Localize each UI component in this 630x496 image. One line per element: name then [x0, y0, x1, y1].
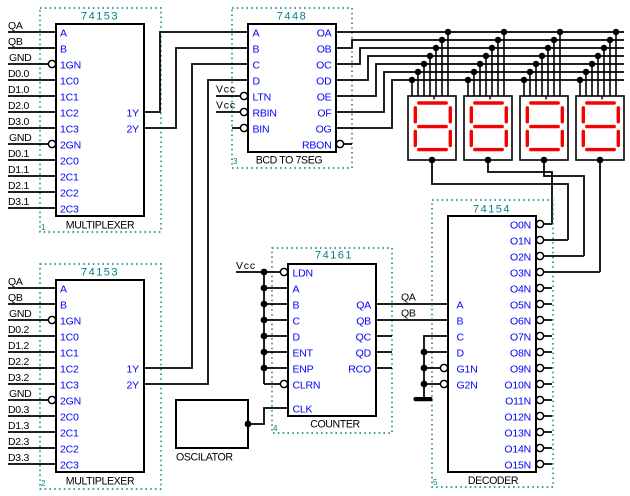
- svg-text:CLK: CLK: [293, 404, 313, 416]
- wire net QA U4.QA to U5.A: [376, 303, 448, 305]
- svg-text:1Y: 1Y: [127, 108, 140, 120]
- wire tie to U4 ENP: [264, 367, 288, 369]
- wire DS3 segment pin 3: [547, 48, 549, 96]
- junction dot DS1 common: [429, 157, 436, 164]
- svg-text:O2N: O2N: [510, 252, 531, 264]
- seven segment display DS1 body: [408, 96, 456, 160]
- svg-text:74154: 74154: [473, 204, 511, 216]
- junction dot DS2 pin 1: [501, 29, 508, 36]
- junction dot DS4 pin 6: [583, 69, 590, 76]
- svg-text:1C3: 1C3: [60, 124, 79, 136]
- counter U4 74161 body: [288, 264, 376, 416]
- junction dot U5 G2N tie: [421, 381, 428, 388]
- junction dot DS2 pin 3: [489, 45, 496, 52]
- svg-text:D: D: [253, 76, 261, 88]
- svg-text:4: 4: [273, 424, 278, 433]
- junction dot DS2 pin 7: [465, 77, 472, 84]
- wire DS1 segment pin 5: [423, 64, 425, 96]
- svg-text:MULTIPLEXER: MULTIPLEXER: [66, 220, 135, 232]
- svg-text:D3.2: D3.2: [8, 372, 29, 384]
- svg-text:1C3: 1C3: [60, 380, 79, 392]
- junction dot DS2 pin 5: [477, 61, 484, 68]
- svg-text:RBIN: RBIN: [253, 108, 277, 120]
- wire stub O9N: [544, 367, 553, 369]
- wire DS3 segment pin 5: [535, 64, 537, 96]
- inverter bubble U4 pin CLRN: [280, 380, 287, 387]
- wire stub O0N: [544, 223, 553, 225]
- junction dot DS1 pin 7: [409, 77, 416, 84]
- DS1 seg d bottom: [419, 148, 446, 151]
- inverter bubble U2 pin 1GN: [48, 316, 55, 323]
- inverter bubble U1 pin 2GN: [48, 140, 55, 147]
- inverter bubble U5 pin O2N: [536, 252, 543, 259]
- svg-text:Vcc: Vcc: [236, 260, 256, 272]
- wire U5 C tie: [424, 336, 448, 398]
- wire DS1 segment pin 4: [429, 56, 431, 96]
- svg-text:G1N: G1N: [457, 364, 478, 376]
- junction dot DS1 pin 1: [445, 29, 452, 36]
- svg-text:COUNTER: COUNTER: [310, 419, 360, 431]
- wire DS3 segment pin 4: [541, 56, 543, 96]
- svg-text:GND: GND: [9, 308, 32, 320]
- DS3 seg f top-left: [526, 108, 529, 122]
- junction dot DS3 pin 3: [545, 45, 552, 52]
- inverter bubble U5 pin O5N: [536, 300, 543, 307]
- svg-text:BCD TO 7SEG: BCD TO 7SEG: [256, 155, 323, 167]
- wire DS2 segment pin 1: [503, 32, 505, 96]
- dotted outline box U2: [40, 264, 161, 489]
- DS1 seg b top-right: [449, 108, 452, 122]
- svg-text:C: C: [253, 60, 261, 72]
- junction dot DS3 pin 1: [557, 29, 564, 36]
- wire QB to U1: [8, 47, 56, 49]
- svg-text:B: B: [253, 44, 260, 56]
- svg-text:CLRN: CLRN: [293, 380, 321, 392]
- inverter bubble U5 pin O3N: [536, 268, 543, 275]
- svg-text:QD: QD: [356, 348, 372, 360]
- DS2 seg f top-left: [470, 108, 473, 122]
- svg-text:1Y: 1Y: [127, 364, 140, 376]
- DS3 seg e bot-left: [526, 131, 529, 145]
- DS1 seg c bot-right: [449, 131, 452, 145]
- wire stub U3 BIN: [232, 127, 241, 129]
- wire GND to U2: [8, 399, 48, 401]
- wire stub O6N: [544, 319, 553, 321]
- wire tie to U4 ENT: [264, 351, 288, 353]
- wire D3.0 to U1: [8, 127, 56, 129]
- wire stub O15N: [544, 463, 553, 465]
- svg-text:O8N: O8N: [510, 348, 531, 360]
- svg-text:QB: QB: [8, 292, 23, 304]
- wire bus OG: [336, 80, 624, 128]
- wire stub O4N: [544, 287, 553, 289]
- wire DS2 segment pin 3: [491, 48, 493, 96]
- svg-text:QA: QA: [356, 300, 371, 312]
- svg-text:2C0: 2C0: [60, 156, 79, 168]
- inverter bubble U5 pin O8N: [536, 348, 543, 355]
- junction dot DS1 pin 2: [439, 37, 446, 44]
- inverter bubble U5 pin O15N: [536, 460, 543, 467]
- DS2 seg g middle: [475, 125, 502, 128]
- junction dot DS3 common: [541, 157, 548, 164]
- wire tie to U4 B: [264, 303, 288, 305]
- svg-text:QB: QB: [356, 316, 371, 328]
- junction dot Vcc tie 5: [261, 333, 268, 340]
- wire stub O10N: [544, 383, 553, 385]
- DS3 seg a top: [531, 101, 558, 104]
- junction dot DS1 pin 3: [433, 45, 440, 52]
- wire DS1 segment pin 1: [447, 32, 449, 96]
- svg-text:OA: OA: [317, 28, 332, 40]
- multiplexer U1 74153 body: [56, 24, 144, 216]
- svg-text:A: A: [293, 284, 300, 296]
- wire bus OA: [336, 31, 624, 33]
- wire stub O3N: [544, 271, 601, 273]
- junction dot Vcc tie 3: [261, 301, 268, 308]
- svg-text:5: 5: [433, 478, 438, 487]
- svg-text:ENT: ENT: [293, 348, 314, 360]
- seven segment display DS3 body: [520, 96, 568, 160]
- junction dot Vcc tie 7: [261, 365, 268, 372]
- DS3 seg c bot-right: [561, 131, 564, 145]
- wire tie to U4 A: [264, 287, 288, 289]
- wire DS4 segment pin 3: [603, 48, 605, 96]
- junction dot DS4 pin 5: [589, 61, 596, 68]
- svg-text:O9N: O9N: [510, 364, 531, 376]
- wire stub O11N: [544, 399, 553, 401]
- wire DS1 common to O1N: [432, 160, 568, 240]
- svg-text:B: B: [457, 316, 464, 328]
- svg-text:2C3: 2C3: [60, 204, 79, 216]
- svg-text:1C2: 1C2: [60, 364, 79, 376]
- svg-text:2GN: 2GN: [60, 396, 81, 408]
- DS1 seg g middle: [419, 125, 446, 128]
- svg-text:D2.0: D2.0: [8, 100, 29, 112]
- wire D2.3 to U2: [8, 447, 56, 449]
- junction dot DS3 pin 4: [539, 53, 546, 60]
- svg-text:OF: OF: [317, 108, 331, 120]
- svg-text:GND: GND: [9, 52, 32, 64]
- wire DS1 segment pin 6: [417, 72, 419, 96]
- wire DS1 segment pin 7: [411, 80, 413, 96]
- junction dot Vcc tie 6: [261, 349, 268, 356]
- wire QA to U2: [8, 287, 56, 289]
- svg-text:D3.1: D3.1: [8, 196, 29, 208]
- svg-text:GND: GND: [9, 132, 32, 144]
- wire DS3 segment pin 1: [559, 32, 561, 96]
- wire QA to U1: [8, 31, 56, 33]
- DS4 seg c bot-right: [617, 131, 620, 145]
- wire U1 1Y to U3 A: [144, 32, 248, 112]
- svg-text:A: A: [60, 284, 67, 296]
- inverter bubble U3 pin BIN: [240, 124, 247, 131]
- DS4 seg d bottom: [587, 148, 614, 151]
- inverter bubble U5 pin O9N: [536, 364, 543, 371]
- DS3 seg g middle: [531, 125, 558, 128]
- wire DS4 segment pin 6: [585, 72, 587, 96]
- inverter bubble U5 pin O1N: [536, 236, 543, 243]
- wire DS2 segment pin 5: [479, 64, 481, 96]
- inverter bubble U4 pin LDN: [280, 268, 287, 275]
- svg-text:O6N: O6N: [510, 316, 531, 328]
- BCD to 7-segment decoder U3 7448 body: [248, 24, 336, 152]
- svg-text:2GN: 2GN: [60, 140, 81, 152]
- wire DS2 common to O0N: [488, 160, 552, 224]
- wire stub O1N: [544, 239, 569, 241]
- svg-text:74153: 74153: [81, 11, 119, 23]
- junction dot DS4 pin 1: [613, 29, 620, 36]
- inverter bubble U1 pin 1GN: [48, 60, 55, 67]
- seven segment display DS4 body: [576, 96, 624, 160]
- svg-text:D: D: [457, 348, 465, 360]
- wire U5 G2N tie: [424, 383, 441, 385]
- wire D3.1 to U1: [8, 207, 56, 209]
- DS3 common pin stub: [545, 96, 547, 100]
- svg-text:D: D: [293, 332, 301, 344]
- svg-text:1: 1: [41, 223, 46, 232]
- wire DS1 segment pin 3: [435, 48, 437, 96]
- wire GND to U1: [8, 63, 48, 65]
- dotted outline box U3: [232, 8, 352, 168]
- svg-text:QA: QA: [401, 292, 416, 304]
- svg-text:O5N: O5N: [510, 300, 531, 312]
- DS4 common pin stub: [601, 96, 603, 100]
- ground symbol: [414, 397, 433, 401]
- DS4 seg a top: [587, 101, 614, 104]
- wire Vcc to U3 LTN: [216, 95, 241, 97]
- multiplexer U2 74153 body: [56, 280, 144, 472]
- svg-text:OE: OE: [317, 92, 332, 104]
- inverter bubble U5 pin O0N: [536, 220, 543, 227]
- wire D1.1 to U1: [8, 175, 56, 177]
- svg-text:B: B: [293, 300, 300, 312]
- wire bus OB: [336, 40, 624, 48]
- wire tie to U4 C: [264, 319, 288, 321]
- svg-text:LDN: LDN: [293, 268, 313, 280]
- wire GND to U1: [8, 143, 48, 145]
- junction dot Vcc tie 1: [261, 269, 268, 276]
- wire stub U4 RCO: [376, 367, 392, 369]
- svg-text:D3.3: D3.3: [8, 452, 29, 464]
- svg-text:1C1: 1C1: [60, 348, 79, 360]
- svg-text:D3.0: D3.0: [8, 116, 29, 128]
- svg-text:OD: OD: [316, 76, 332, 88]
- svg-text:A: A: [457, 300, 464, 312]
- junction dot DS4 pin 7: [577, 77, 584, 84]
- wire stub U3 RBON: [344, 143, 353, 145]
- wire DS2 segment pin 2: [497, 40, 499, 96]
- svg-text:2C2: 2C2: [60, 444, 79, 456]
- wire Vcc tie bus vertical: [263, 272, 265, 384]
- inverter bubble U2 pin 2GN: [48, 396, 55, 403]
- svg-text:QB: QB: [8, 36, 23, 48]
- inverter bubble U5 pin G2N: [440, 380, 447, 387]
- svg-text:D1.1: D1.1: [8, 164, 29, 176]
- wire D1.0 to U1: [8, 95, 56, 97]
- svg-text:1GN: 1GN: [60, 60, 81, 72]
- wire D0.0 to U1: [8, 79, 56, 81]
- inverter bubble U5 pin O13N: [536, 428, 543, 435]
- wire stub O8N: [544, 351, 553, 353]
- wire Vcc to U4 LDN: [236, 271, 281, 273]
- svg-text:74153: 74153: [81, 267, 119, 279]
- svg-text:D2.1: D2.1: [8, 180, 29, 192]
- wire DS3 common to O2N: [544, 160, 584, 256]
- wire stub O14N: [544, 447, 553, 449]
- svg-text:D1.3: D1.3: [8, 420, 29, 432]
- svg-text:2C1: 2C1: [60, 428, 79, 440]
- svg-text:3: 3: [233, 157, 238, 166]
- DS1 seg a top: [419, 101, 446, 104]
- inverter bubble U5 pin G1N: [440, 364, 447, 371]
- svg-text:O0N: O0N: [510, 220, 531, 232]
- svg-text:1C1: 1C1: [60, 92, 79, 104]
- wire DS2 segment pin 6: [473, 72, 475, 96]
- wire D0.2 to U2: [8, 335, 56, 337]
- svg-text:ENP: ENP: [293, 364, 314, 376]
- svg-text:QA: QA: [8, 20, 23, 32]
- inverter bubble U3 pin RBON: [336, 140, 343, 147]
- DS4 seg g middle: [587, 125, 614, 128]
- svg-text:OG: OG: [316, 124, 332, 136]
- wire bus OD: [336, 56, 624, 80]
- svg-text:A: A: [253, 28, 260, 40]
- svg-text:Vcc: Vcc: [216, 100, 236, 112]
- svg-text:QA: QA: [8, 276, 23, 288]
- dotted outline box U4: [272, 248, 392, 433]
- DS2 seg b top-right: [505, 108, 508, 122]
- junction dot Vcc tie 4: [261, 317, 268, 324]
- svg-text:2C2: 2C2: [60, 188, 79, 200]
- wire stub U4 QC: [376, 335, 392, 337]
- svg-text:O11N: O11N: [505, 396, 531, 408]
- DS2 seg e bot-left: [470, 131, 473, 145]
- dotted outline box U1: [40, 8, 161, 232]
- inverter bubble U5 pin O7N: [536, 332, 543, 339]
- wire U2 2Y to U3 D: [144, 80, 248, 384]
- inverter bubble U3 pin LTN: [240, 92, 247, 99]
- wire stub O5N: [544, 303, 553, 305]
- decoder U5 74154 body: [448, 216, 536, 472]
- inverter bubble U5 pin O6N: [536, 316, 543, 323]
- wire stub O13N: [544, 431, 553, 433]
- DS4 seg e bot-left: [582, 131, 585, 145]
- wire tie to U4 CLRN: [264, 383, 281, 385]
- junction dot DS1 pin 6: [415, 69, 422, 76]
- seven segment display DS2 body: [464, 96, 512, 160]
- svg-text:2C3: 2C3: [60, 460, 79, 472]
- svg-text:A: A: [60, 28, 67, 40]
- wire D3.3 to U2: [8, 463, 56, 465]
- junction dot DS4 common: [597, 157, 604, 164]
- wire DS4 segment pin 2: [609, 40, 611, 96]
- svg-text:QB: QB: [401, 308, 416, 320]
- svg-text:Vcc: Vcc: [216, 84, 236, 96]
- inverter bubble U5 pin O4N: [536, 284, 543, 291]
- wire DS4 segment pin 4: [597, 56, 599, 96]
- svg-text:O4N: O4N: [510, 284, 531, 296]
- wire OSC1 output to U4 CLK: [248, 408, 288, 424]
- svg-text:B: B: [60, 300, 67, 312]
- wire bus OC: [336, 48, 624, 64]
- DS3 seg d bottom: [531, 148, 558, 151]
- wire D2.2 to U2: [8, 367, 56, 369]
- junction dot DS4 pin 3: [601, 45, 608, 52]
- DS4 seg b top-right: [617, 108, 620, 122]
- svg-text:O10N: O10N: [504, 380, 531, 392]
- svg-text:1C0: 1C0: [60, 332, 79, 344]
- wire DS3 segment pin 2: [553, 40, 555, 96]
- oscillator OSC1 body: [176, 400, 248, 448]
- wire D0.1 to U1: [8, 159, 56, 161]
- junction dot DS3 pin 6: [527, 69, 534, 76]
- junction dot U5 D tie: [421, 349, 428, 356]
- svg-text:O13N: O13N: [504, 428, 531, 440]
- svg-text:RCO: RCO: [348, 364, 371, 376]
- junction dot Vcc tie 2: [261, 285, 268, 292]
- wire U5 D tie: [424, 351, 448, 353]
- dotted outline box U5: [432, 200, 553, 487]
- svg-text:1C2: 1C2: [60, 108, 79, 120]
- junction dot U5 G1N tie: [421, 365, 428, 372]
- svg-text:1GN: 1GN: [60, 316, 81, 328]
- svg-text:OSCILATOR: OSCILATOR: [176, 452, 233, 464]
- DS2 seg c bot-right: [505, 131, 508, 145]
- svg-text:1C0: 1C0: [60, 76, 79, 88]
- wire D3.2 to U2: [8, 383, 56, 385]
- wire DS3 segment pin 7: [523, 80, 525, 96]
- inverter bubble U5 pin O12N: [536, 412, 543, 419]
- wire GND to U2: [8, 319, 48, 321]
- junction dot DS2 pin 4: [483, 53, 490, 60]
- wire D2.1 to U1: [8, 191, 56, 193]
- junction dot DS2 common: [485, 157, 492, 164]
- svg-text:D1.2: D1.2: [8, 340, 29, 352]
- junction dot DS3 pin 5: [533, 61, 540, 68]
- inverter bubble U5 pin O14N: [536, 444, 543, 451]
- svg-text:G2N: G2N: [457, 380, 478, 392]
- inverter bubble U3 pin RBIN: [240, 108, 247, 115]
- junction dot DS2 pin 6: [471, 69, 478, 76]
- wire tie to U4 D: [264, 335, 288, 337]
- svg-text:2C1: 2C1: [60, 172, 79, 184]
- wire D1.2 to U2: [8, 351, 56, 353]
- svg-text:DECODER: DECODER: [468, 475, 519, 487]
- junction dot DS2 pin 2: [495, 37, 502, 44]
- svg-text:RBON: RBON: [302, 140, 332, 152]
- wire stub O7N: [544, 335, 553, 337]
- svg-text:O14N: O14N: [504, 444, 531, 456]
- inverter bubble U5 pin O10N: [536, 380, 543, 387]
- junction dot DS3 pin 2: [551, 37, 558, 44]
- wire U2 1Y to U3 C: [144, 64, 248, 368]
- svg-text:D2.2: D2.2: [8, 356, 29, 368]
- wire stub O2N: [544, 255, 585, 257]
- DS4 seg f top-left: [582, 108, 585, 122]
- wire DS4 segment pin 5: [591, 64, 593, 96]
- svg-text:74161: 74161: [315, 250, 353, 262]
- wire Vcc to U3 RBIN: [216, 111, 241, 113]
- wire net QB U4.QB to U5.B: [376, 319, 448, 321]
- wire bus OE: [336, 64, 624, 96]
- svg-text:D2.3: D2.3: [8, 436, 29, 448]
- junction dot OSC1 output: [245, 421, 252, 428]
- wire DS2 segment pin 7: [467, 80, 469, 96]
- svg-text:C: C: [457, 332, 465, 344]
- wire U1 2Y to U3 B: [144, 48, 248, 128]
- wire D0.3 to U2: [8, 415, 56, 417]
- svg-text:D1.0: D1.0: [8, 84, 29, 96]
